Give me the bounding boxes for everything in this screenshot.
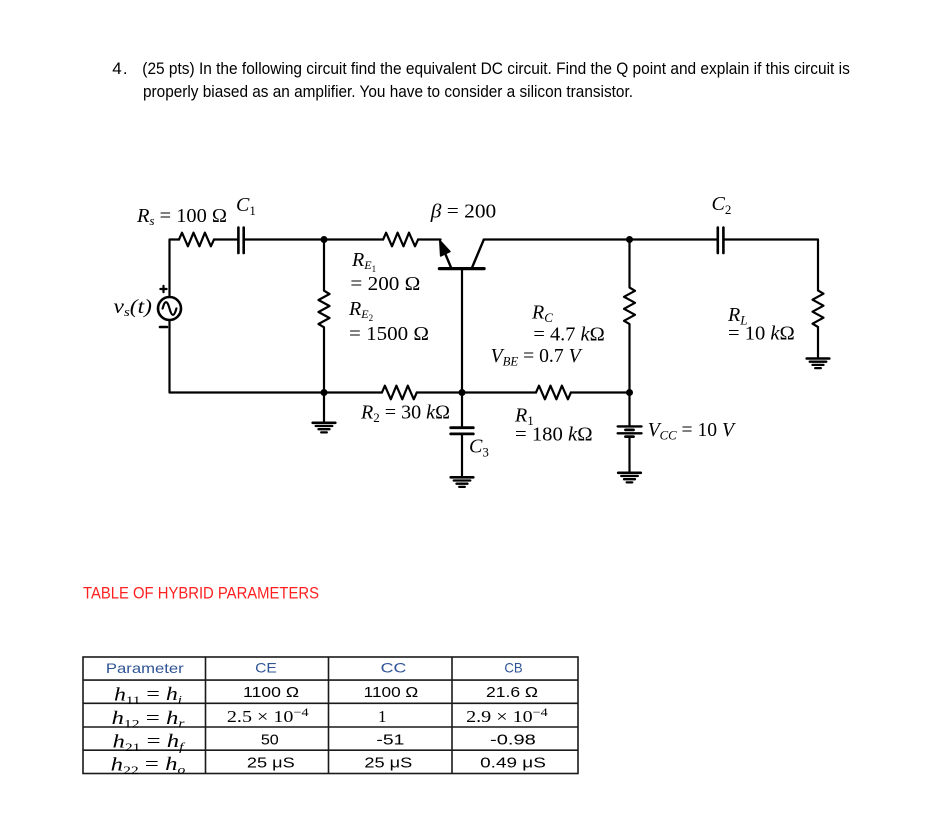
svg-text:= 180 kΩ: = 180 kΩ (515, 424, 593, 446)
transistor Q1 emitter line (444, 250, 451, 267)
resistor RL (813, 290, 824, 327)
capacitor C2 (716, 228, 719, 254)
wire C1 to node A (245, 238, 324, 240)
transistor Q1 collector line (472, 240, 483, 267)
ground under RE2 node (313, 421, 336, 424)
svg-text:-51: -51 (376, 731, 404, 748)
table grid (83, 657, 578, 774)
node bottom RE2/ground junction dot (321, 389, 328, 396)
wire RL to ground (817, 327, 819, 358)
svg-text:vs(t): vs(t) (114, 296, 153, 319)
resistor R1 (536, 386, 571, 400)
wire R1 to Vcc node (571, 391, 630, 393)
svg-text:Parameter: Parameter (106, 660, 184, 676)
svg-text:2.9 × 10−4: 2.9 × 10−4 (466, 705, 548, 726)
wire base node down to C3 (461, 393, 463, 427)
svg-text:1100 Ω: 1100 Ω (243, 684, 299, 701)
svg-text:2.5 × 10−4: 2.5 × 10−4 (227, 705, 309, 726)
table header row (106, 660, 523, 676)
svg-text:CB: CB (504, 660, 522, 676)
capacitor C1 (237, 228, 240, 254)
svg-text:R2 = 30 kΩ: R2 = 30 kΩ (360, 402, 450, 426)
wire Rs to C1 (214, 238, 237, 240)
wire top-left from source to Rs (170, 240, 180, 298)
svg-text:25 μS: 25 μS (247, 754, 295, 771)
svg-text:= 4.7 kΩ: = 4.7 kΩ (533, 324, 604, 346)
node A junction dot (top, RE2) (321, 236, 328, 243)
svg-text:RE1: RE1 (351, 249, 376, 274)
table data row 2 (227, 705, 548, 726)
svg-text:= 10 kΩ: = 10 kΩ (728, 323, 795, 345)
transistor Q1 base bar (439, 267, 484, 270)
svg-text:TABLE OF HYBRID PARAMETERS: TABLE OF HYBRID PARAMETERS (83, 583, 319, 602)
svg-text:CC: CC (381, 660, 407, 676)
svg-text:21.6 Ω: 21.6 Ω (486, 684, 538, 701)
svg-text:C1: C1 (236, 194, 256, 218)
wire base lead of Q1 (461, 270, 463, 393)
svg-text:VCC = 10 V: VCC = 10 V (648, 419, 737, 443)
svg-text:VBE = 0.7 V: VBE = 0.7 V (491, 345, 584, 369)
svg-text:1100 Ω: 1100 Ω (364, 684, 419, 701)
battery Vcc (618, 425, 642, 427)
resistor RE2 vertical (319, 240, 330, 393)
wire battery to ground (628, 438, 630, 472)
wire Vcc node down to battery (628, 393, 630, 426)
svg-text:0.49 μS: 0.49 μS (480, 754, 546, 771)
table data row 3 (261, 731, 536, 748)
svg-text:= 1500 Ω: = 1500 Ω (349, 323, 429, 345)
source vs(t) circle (158, 297, 181, 320)
svg-text:50: 50 (261, 731, 279, 748)
svg-text:RC: RC (531, 302, 553, 326)
wire base node to R1 (462, 391, 536, 393)
svg-text:(25 pts) In the following circ: (25 pts) In the following circuit find t… (142, 59, 850, 78)
wire R2 to base node (417, 391, 462, 393)
wire collector to RC node (484, 238, 630, 240)
source plus sign (160, 286, 166, 292)
svg-text:= 200 Ω: = 200 Ω (350, 273, 420, 295)
wire RC node to C2 (630, 238, 717, 240)
resistor RC vertical with leads (624, 240, 635, 393)
svg-text:properly biased as an amplifie: properly biased as an amplifier. You hav… (143, 82, 633, 101)
wire C3 to ground (461, 435, 463, 476)
table data row 1 (243, 684, 538, 701)
svg-text:h21 = hf: h21 = hf (113, 731, 186, 754)
node collector/RC junction dot (626, 236, 633, 243)
ground under C3 (451, 476, 474, 479)
capacitor C3 (451, 426, 474, 429)
table data row 4 (247, 754, 546, 771)
resistor RE1 (383, 233, 418, 247)
transistor Q1 emitter arrow (440, 241, 450, 256)
wire RE1 to emitter arrow (418, 238, 441, 240)
wire source to bottom rail (170, 320, 382, 393)
node RC/Vcc junction dot (626, 389, 633, 396)
svg-text:Rs = 100 Ω: Rs = 100 Ω (136, 205, 227, 228)
svg-text:h11 = hi: h11 = hi (114, 684, 182, 707)
ground under RL (807, 357, 830, 360)
svg-text:h12 = hr: h12 = hr (112, 708, 185, 731)
source vs(t) sine (163, 302, 177, 315)
resistor R2 (382, 386, 417, 400)
svg-text:RE2: RE2 (348, 298, 373, 323)
node base/C3 junction dot (459, 389, 466, 396)
wire node to ground stub under RE2 (323, 393, 325, 422)
svg-text:C2: C2 (712, 193, 732, 217)
wire node A to RE1 (324, 238, 383, 240)
svg-text:4.: 4. (112, 59, 127, 78)
svg-text:1: 1 (378, 707, 387, 726)
svg-text:-0.98: -0.98 (490, 731, 536, 748)
source minus sign (160, 326, 167, 329)
svg-text:CE: CE (255, 660, 277, 676)
ground under battery Vcc (618, 471, 641, 474)
svg-text:β = 200: β = 200 (430, 201, 496, 223)
svg-text:h22 = ho: h22 = ho (111, 754, 186, 777)
resistor Rs (179, 233, 214, 247)
wire C2 to RL corner (725, 240, 818, 291)
svg-text:25 μS: 25 μS (364, 754, 412, 771)
svg-text:C3: C3 (469, 436, 489, 460)
